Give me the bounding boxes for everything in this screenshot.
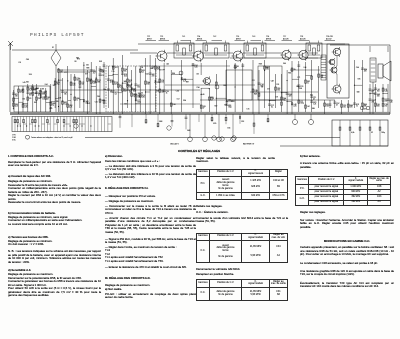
svg-text:S44: S44 [150, 68, 153, 70]
svg-text:R40: R40 [350, 105, 353, 107]
svg-text:C7: C7 [31, 86, 33, 88]
svg-text:C72: C72 [271, 105, 274, 107]
svg-text:C38: C38 [58, 98, 61, 100]
svg-text:R14: R14 [195, 65, 198, 67]
svg-text:220: 220 [385, 101, 388, 103]
svg-text:82: 82 [371, 132, 373, 134]
svg-text:L35: L35 [22, 99, 25, 101]
svg-text:C76: C76 [276, 84, 279, 86]
svg-text:150: 150 [137, 97, 140, 99]
svg-text:R43: R43 [93, 71, 96, 73]
svg-text:4,7k: 4,7k [25, 107, 28, 109]
svg-text:R59: R59 [100, 70, 103, 72]
svg-text:L91: L91 [385, 89, 388, 91]
svg-text:S33: S33 [203, 106, 206, 108]
svg-text:C29: C29 [20, 90, 23, 92]
svg-text:R39: R39 [228, 105, 231, 107]
svg-text:S40: S40 [36, 88, 39, 90]
svg-text:R78: R78 [313, 102, 316, 104]
svg-text:5,6k: 5,6k [385, 91, 388, 93]
svg-text:R94: R94 [364, 69, 367, 71]
svg-text:47: 47 [203, 108, 205, 110]
svg-text:R65: R65 [364, 104, 367, 106]
svg-text:R25: R25 [213, 123, 216, 125]
svg-text:S5: S5 [294, 69, 296, 71]
svg-text:47: 47 [129, 82, 131, 84]
svg-text:4,7k: 4,7k [15, 106, 18, 108]
svg-text:C16: C16 [115, 82, 118, 84]
svg-text:S58: S58 [99, 61, 102, 63]
svg-text:47: 47 [336, 105, 338, 107]
svg-text:10k: 10k [76, 80, 79, 82]
svg-text:2,2k: 2,2k [255, 92, 258, 94]
svg-text:C45: C45 [255, 90, 258, 92]
svg-text:S85: S85 [15, 104, 18, 106]
svg-text:C71: C71 [267, 88, 270, 90]
svg-text:Toutes valeurs non indiquées :: Toutes valeurs non indiquées : résist. e… [31, 136, 73, 139]
svg-text:L11: L11 [300, 101, 303, 103]
svg-text:S82: S82 [307, 81, 310, 83]
svg-text:L36: L36 [173, 104, 176, 106]
svg-text:C54: C54 [356, 67, 359, 69]
svg-text:L6: L6 [110, 90, 112, 92]
svg-text:L49: L49 [294, 104, 297, 106]
svg-text:100p: 100p [300, 103, 304, 105]
svg-text:R53: R53 [288, 72, 291, 74]
svg-text:50µ: 50µ [283, 100, 286, 102]
svg-text:C97: C97 [336, 103, 339, 105]
svg-text:S40: S40 [85, 101, 88, 103]
svg-text:S40: S40 [124, 81, 127, 83]
svg-text:AF116: AF116 [266, 37, 271, 40]
svg-text:S35: S35 [56, 101, 59, 103]
svg-text:C31: C31 [124, 103, 127, 105]
svg-text:S2: S2 [124, 89, 126, 91]
svg-text:AF116: AF116 [197, 37, 202, 40]
svg-text:L19: L19 [18, 62, 21, 64]
svg-text:S23: S23 [364, 109, 367, 111]
svg-text:100: 100 [124, 91, 127, 93]
svg-text:R73: R73 [77, 58, 80, 60]
svg-text:S62: S62 [152, 74, 155, 76]
svg-text:2,2k: 2,2k [313, 104, 316, 106]
svg-text:R89: R89 [211, 97, 214, 99]
svg-text:L20: L20 [140, 93, 143, 95]
svg-text:C16: C16 [385, 104, 388, 106]
svg-text:C87: C87 [25, 105, 28, 107]
svg-text:220: 220 [152, 76, 155, 78]
svg-text:C61: C61 [86, 65, 89, 67]
svg-text:L52: L52 [177, 98, 180, 100]
svg-text:150: 150 [320, 77, 323, 79]
svg-text:15k: 15k [64, 94, 67, 96]
svg-text:R48: R48 [254, 94, 257, 96]
svg-text:S10: S10 [124, 74, 127, 76]
svg-text:R69: R69 [259, 63, 262, 65]
svg-text:R25: R25 [57, 82, 60, 84]
svg-text:C89: C89 [277, 88, 280, 90]
svg-text:15k: 15k [110, 92, 113, 94]
svg-text:S32: S32 [53, 85, 56, 87]
svg-text:470: 470 [289, 96, 292, 98]
svg-text:TI-1: TI-1 [182, 36, 185, 38]
svg-text:2n2: 2n2 [93, 73, 96, 75]
svg-text:S70: S70 [87, 103, 90, 105]
svg-text:S31: S31 [310, 95, 313, 97]
svg-text:25µ: 25µ [57, 84, 60, 86]
svg-text:R92: R92 [64, 102, 67, 104]
svg-text:C72: C72 [60, 70, 63, 72]
svg-text:R35: R35 [296, 86, 299, 88]
svg-text:4,7k: 4,7k [110, 82, 113, 84]
svg-text:S48: S48 [377, 94, 380, 96]
svg-text:S22: S22 [39, 91, 42, 93]
svg-text:C34: C34 [197, 87, 200, 89]
svg-text:C89: C89 [41, 89, 44, 91]
svg-text:R87: R87 [186, 81, 189, 83]
svg-text:180 mA 6 V: 180 mA 6 V [170, 143, 180, 146]
svg-text:47: 47 [313, 99, 315, 101]
svg-text:470: 470 [364, 71, 367, 73]
svg-text:S28: S28 [156, 90, 159, 92]
svg-text:R1: R1 [29, 98, 31, 100]
svg-text:S12: S12 [214, 106, 217, 108]
svg-text:C33: C33 [343, 105, 346, 107]
svg-text:S55: S55 [283, 63, 286, 65]
svg-text:S1: S1 [385, 99, 387, 101]
svg-text:150: 150 [277, 90, 280, 92]
svg-text:S34: S34 [183, 100, 186, 102]
svg-text:220: 220 [161, 82, 164, 84]
svg-text:R12: R12 [15, 94, 18, 96]
svg-text:S40: S40 [357, 92, 360, 94]
svg-text:L84: L84 [45, 84, 48, 86]
svg-text:BATTERIE 9 V: BATTERIE 9 V [243, 143, 255, 146]
svg-text:S8: S8 [237, 66, 239, 68]
svg-text:R96: R96 [76, 98, 79, 100]
svg-text:S49: S49 [312, 108, 315, 110]
svg-text:1 PO: 1 PO [12, 134, 16, 136]
svg-text:S1: S1 [52, 47, 54, 49]
svg-text:15k: 15k [137, 87, 140, 89]
svg-text:S17: S17 [115, 92, 118, 94]
svg-text:L62: L62 [196, 74, 199, 76]
svg-text:AC132: AC132 [326, 37, 332, 40]
svg-text:C72: C72 [98, 80, 101, 82]
svg-text:L59: L59 [377, 104, 380, 106]
svg-text:1n: 1n [76, 100, 78, 102]
svg-text:0,1: 0,1 [115, 94, 117, 96]
svg-text:5p: 5p [52, 105, 54, 107]
svg-text:L64: L64 [103, 89, 106, 91]
svg-text:R78: R78 [356, 104, 359, 106]
svg-text:4,7k: 4,7k [73, 85, 76, 87]
svg-text:15k: 15k [129, 87, 132, 89]
svg-text:15k: 15k [124, 71, 127, 73]
svg-text:C6: C6 [261, 87, 263, 89]
svg-text:L44: L44 [228, 100, 231, 102]
svg-text:C15: C15 [247, 109, 250, 111]
svg-text:L99: L99 [299, 88, 302, 90]
svg-text:S95: S95 [224, 105, 227, 107]
svg-text:L94: L94 [304, 67, 307, 69]
svg-text:10n: 10n [326, 106, 329, 108]
svg-text:C8: C8 [102, 75, 104, 77]
svg-text:AC126: AC126 [300, 37, 306, 40]
svg-text:C54: C54 [176, 91, 179, 93]
svg-text:47: 47 [20, 92, 22, 94]
svg-text:AF117: AF117 [147, 37, 152, 40]
svg-text:S8: S8 [74, 61, 76, 63]
svg-text:S11: S11 [115, 67, 118, 69]
svg-text:6,8k: 6,8k [142, 97, 145, 99]
svg-text:TI-2: TI-2 [213, 36, 216, 38]
svg-text:8,2k: 8,2k [124, 76, 127, 78]
svg-text:0,1: 0,1 [271, 107, 273, 109]
svg-text:S18: S18 [142, 70, 145, 72]
svg-text:S18: S18 [241, 121, 244, 123]
svg-text:L77: L77 [64, 72, 67, 74]
svg-text:100: 100 [147, 84, 150, 86]
svg-text:AF116: AF116 [160, 37, 165, 40]
svg-text:R75: R75 [142, 95, 145, 97]
svg-text:150: 150 [377, 91, 380, 93]
svg-text:1n: 1n [307, 83, 309, 85]
svg-text:8,2k: 8,2k [195, 67, 198, 69]
svg-text:L4: L4 [141, 67, 143, 69]
svg-text:1k: 1k [166, 93, 168, 95]
svg-text:S77: S77 [85, 74, 88, 76]
svg-text:150: 150 [15, 96, 18, 98]
svg-text:R88: R88 [86, 68, 89, 70]
svg-text:L16: L16 [161, 80, 164, 82]
svg-text:C48: C48 [271, 81, 274, 83]
svg-text:AF117: AF117 [236, 37, 241, 40]
svg-text:S35: S35 [358, 78, 361, 80]
svg-text:C38: C38 [76, 78, 79, 80]
svg-text:C95: C95 [97, 96, 100, 98]
svg-text:100p: 100p [381, 132, 385, 134]
svg-text:R25: R25 [49, 108, 52, 110]
svg-text:330: 330 [377, 96, 380, 98]
svg-text:C69: C69 [26, 59, 29, 61]
svg-text:47: 47 [47, 99, 49, 101]
svg-text:0,1: 0,1 [142, 72, 144, 74]
svg-text:C31: C31 [300, 86, 303, 88]
svg-text:S61: S61 [26, 82, 29, 84]
svg-text:C44: C44 [283, 98, 286, 100]
svg-text:S61: S61 [47, 97, 50, 99]
svg-text:4,7k: 4,7k [294, 106, 297, 108]
svg-text:220: 220 [350, 107, 353, 109]
svg-text:L40: L40 [166, 64, 169, 66]
svg-text:15k: 15k [343, 107, 346, 109]
svg-text:C39: C39 [234, 67, 237, 69]
svg-text:2n2: 2n2 [385, 106, 388, 108]
svg-text:10n: 10n [161, 92, 164, 94]
svg-text:C16: C16 [166, 91, 169, 93]
svg-text:S45: S45 [38, 93, 41, 95]
svg-text:C10: C10 [95, 102, 98, 104]
svg-text:S96: S96 [172, 73, 175, 75]
svg-text:L40: L40 [202, 94, 205, 96]
svg-text:330: 330 [60, 72, 63, 74]
svg-text:2n2: 2n2 [42, 99, 45, 101]
svg-text:C75: C75 [112, 71, 115, 73]
svg-text:L67: L67 [307, 106, 310, 108]
svg-text:C78: C78 [64, 92, 67, 94]
svg-text:R24: R24 [223, 85, 226, 87]
svg-text:S13: S13 [231, 101, 234, 103]
svg-text:3 OC: 3 OC [12, 140, 17, 142]
svg-text:1k: 1k [356, 106, 358, 108]
svg-text:TI-3: TI-3 [252, 36, 255, 38]
svg-text:68k: 68k [42, 94, 45, 96]
svg-text:S91: S91 [34, 102, 37, 104]
svg-text:R68: R68 [159, 121, 162, 123]
svg-text:C34: C34 [124, 69, 127, 71]
svg-text:R57: R57 [265, 67, 268, 69]
svg-text:330: 330 [377, 106, 380, 108]
svg-text:6,8k: 6,8k [351, 132, 354, 134]
svg-text:0,1: 0,1 [211, 100, 213, 102]
svg-text:82: 82 [29, 95, 31, 97]
svg-text:S74: S74 [29, 74, 32, 76]
svg-text:100p: 100p [228, 107, 232, 109]
svg-text:R34: R34 [289, 94, 292, 96]
svg-text:L18: L18 [226, 101, 229, 103]
svg-text:L74: L74 [377, 89, 380, 91]
svg-text:C11: C11 [252, 80, 255, 82]
svg-text:C11: C11 [313, 97, 316, 99]
svg-text:2 GO: 2 GO [12, 137, 17, 139]
svg-text:220: 220 [129, 92, 132, 94]
svg-text:C44: C44 [147, 82, 150, 84]
svg-text:AC126: AC126 [283, 37, 289, 40]
svg-text:5,6k: 5,6k [93, 83, 96, 85]
svg-text:C71: C71 [297, 77, 300, 79]
svg-text:C62: C62 [146, 74, 149, 76]
svg-text:C56: C56 [227, 128, 230, 130]
svg-text:L19: L19 [275, 96, 278, 98]
svg-text:L77: L77 [137, 100, 140, 102]
